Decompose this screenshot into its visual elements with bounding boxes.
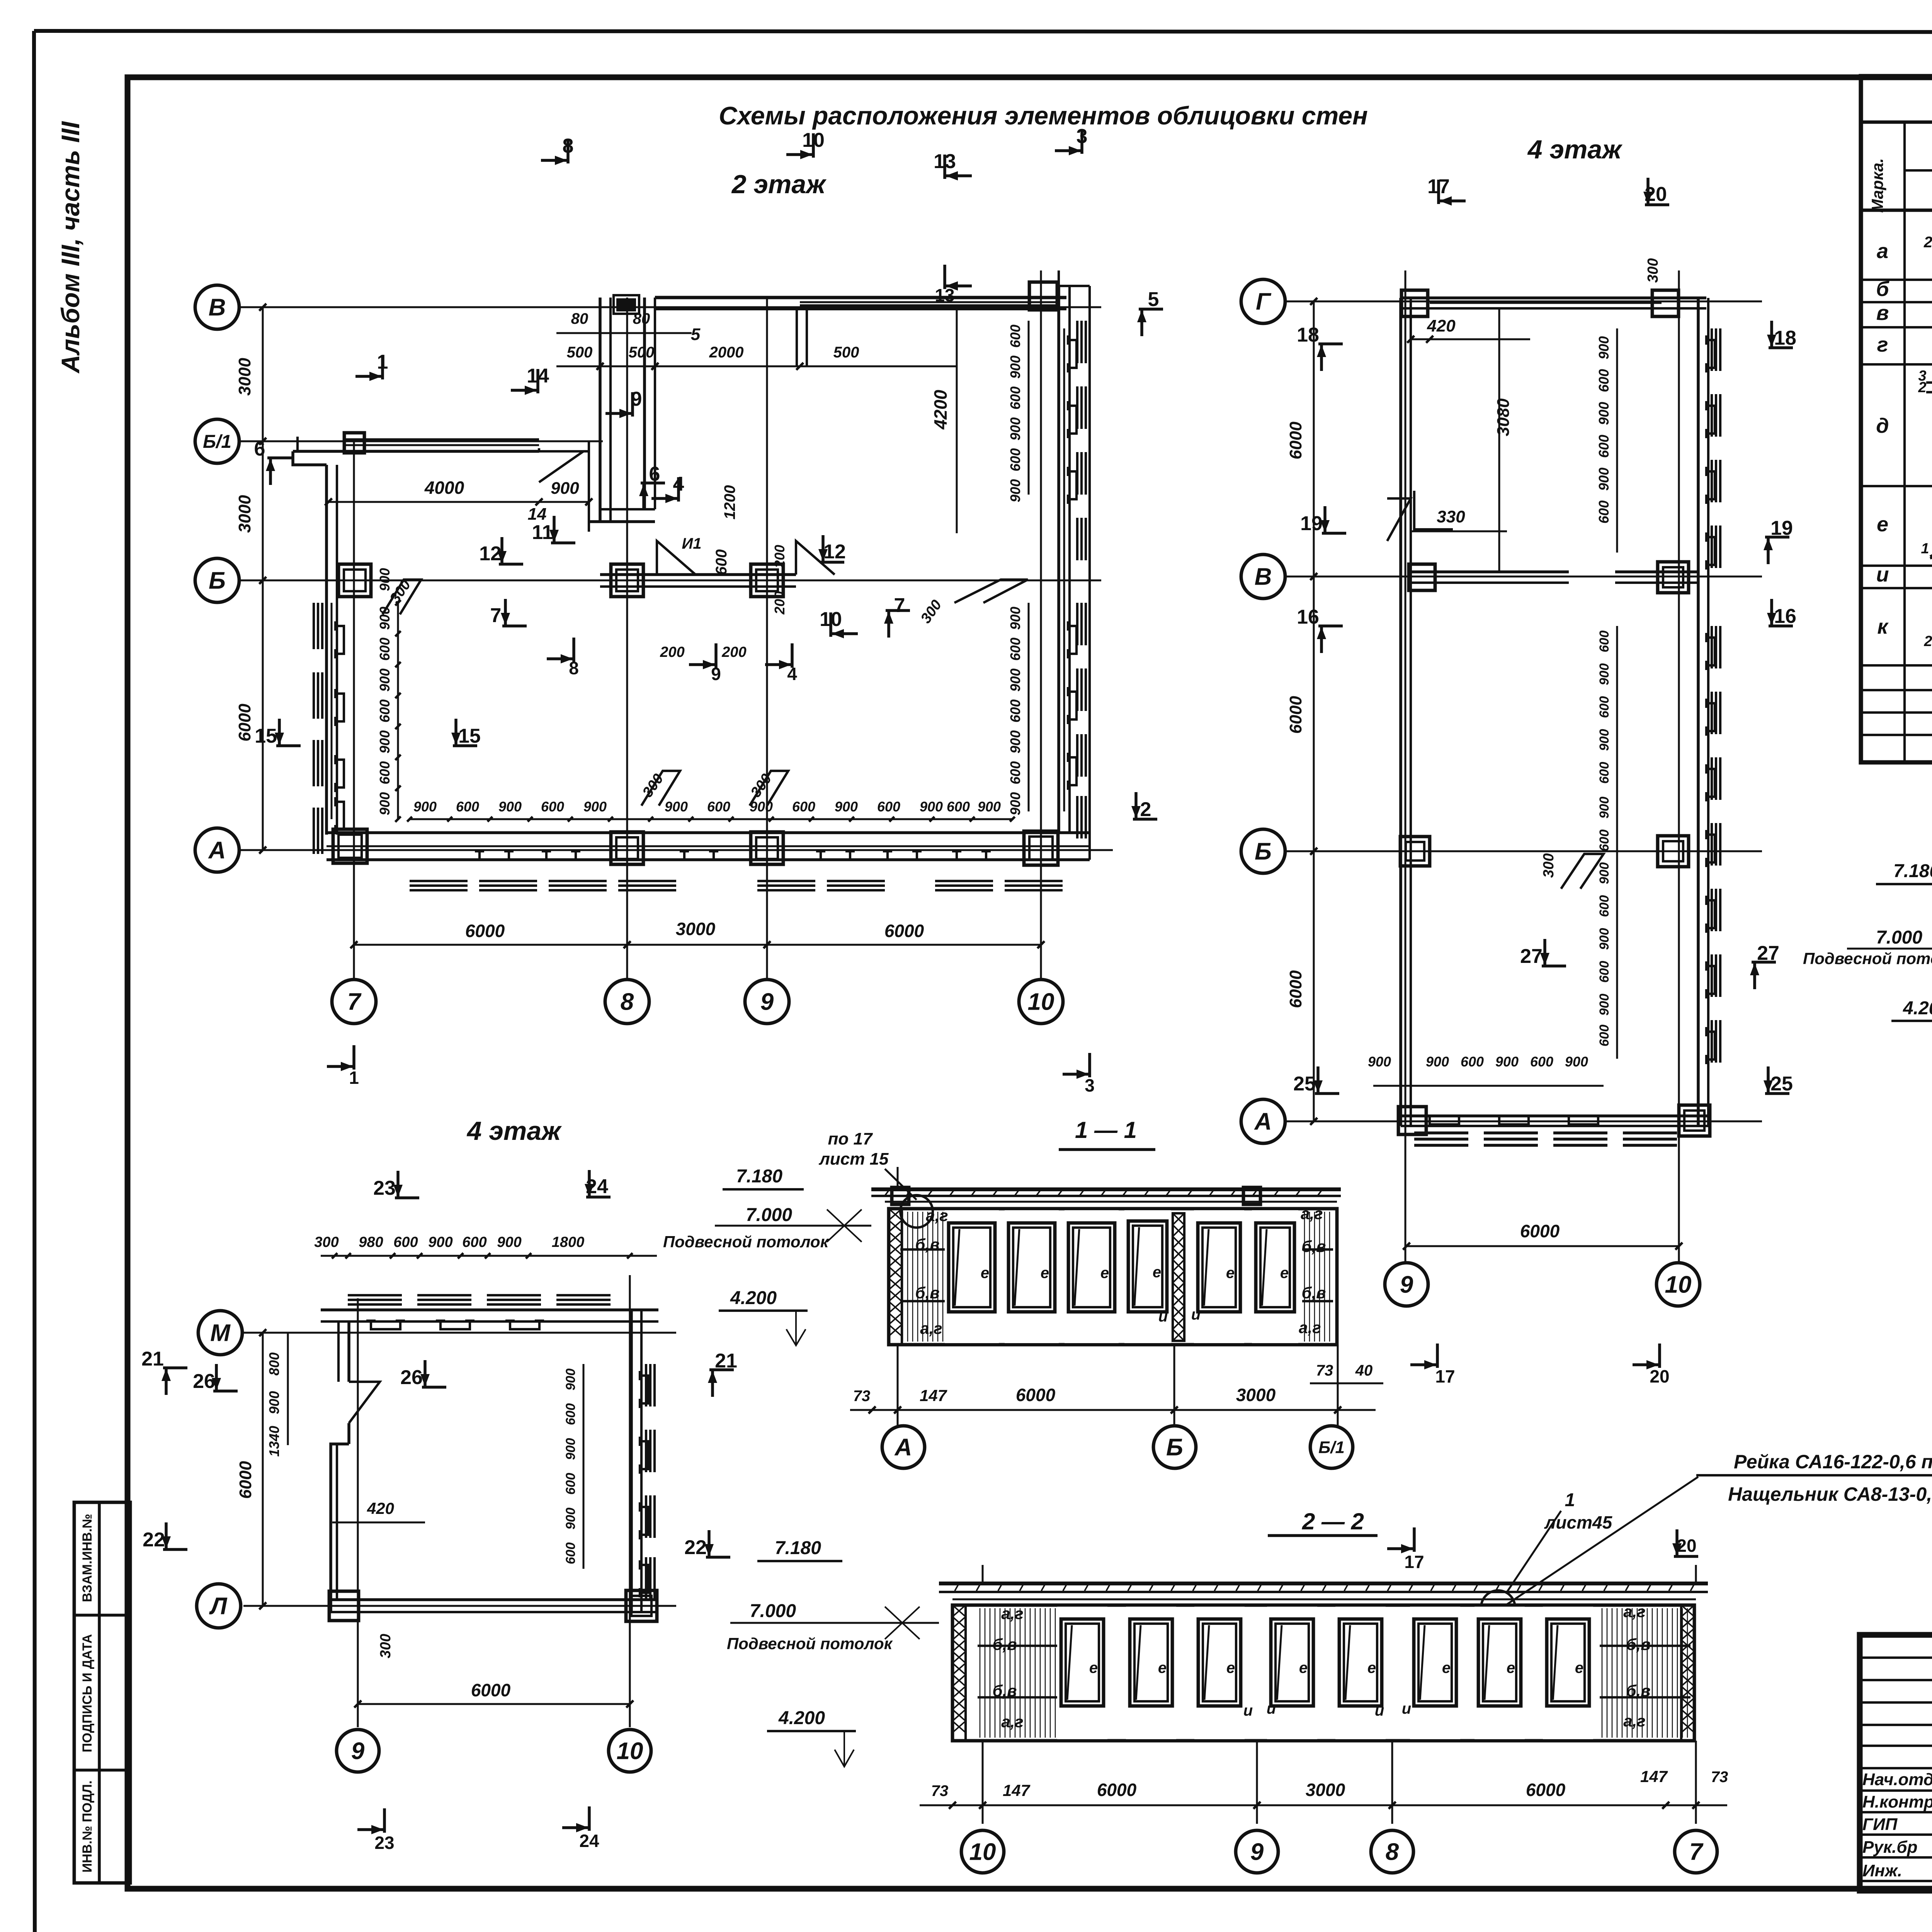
plan2 left top jog (293, 437, 343, 465)
svg-text:420: 420 (367, 1499, 394, 1517)
axis circle Б (plan2) (195, 558, 239, 602)
svg-text:900: 900 (413, 799, 437, 815)
svg-text:к: к (1877, 615, 1889, 638)
plan2 bottom windows and sills (410, 851, 1063, 890)
svg-text:200: 200 (721, 644, 746, 660)
svg-text:Б: Б (209, 568, 226, 594)
plan2 left wall windows (314, 603, 344, 854)
svg-text:147: 147 (1003, 1781, 1031, 1799)
svg-text:6: 6 (254, 438, 265, 460)
svg-text:600: 600 (947, 799, 970, 815)
svg-text:900: 900 (563, 1438, 578, 1460)
svg-text:1 — 1: 1 — 1 (1075, 1117, 1137, 1143)
plan2 right wall (1059, 286, 1070, 833)
svg-text:и: и (1375, 1702, 1384, 1719)
axis circle 8 (605, 980, 649, 1024)
svg-text:20: 20 (1645, 183, 1667, 206)
svg-text:900: 900 (1007, 792, 1023, 815)
plan2 bottom dimension chain 6000/3000/6000 (350, 919, 1044, 948)
axis circle Б/1 (195, 419, 239, 463)
plan2 column at Б left wall (338, 564, 371, 597)
svg-text:600: 600 (1597, 830, 1612, 852)
svg-text:11: 11 (532, 521, 553, 544)
svg-text:лист 15: лист 15 (818, 1150, 889, 1168)
svg-text:2: 2 (1918, 379, 1926, 396)
callout Рейка СА16-122-0,6п / Нащельник СА8-13-0,6 (1507, 1451, 1932, 1604)
plan2 corner/axis columns bottom (333, 829, 367, 863)
svg-text:3000: 3000 (1306, 1780, 1345, 1800)
svg-text:10: 10 (969, 1839, 996, 1866)
svg-text:600: 600 (877, 799, 900, 815)
svg-text:Б/1: Б/1 (1318, 1438, 1345, 1457)
svg-text:900: 900 (583, 799, 607, 815)
plan4 axis lines (1287, 270, 1762, 1264)
left stamp column boxes (74, 1502, 130, 1883)
svg-text:900: 900 (1597, 729, 1612, 751)
svg-text:300: 300 (1645, 258, 1661, 282)
svg-text:600: 600 (1596, 500, 1612, 524)
svg-text:600: 600 (1007, 761, 1023, 784)
plan2 rotated dims 1200/600/200 (660, 485, 787, 660)
axis circle А (plan2) (195, 828, 239, 872)
section 1-1 end hatch columns (889, 1209, 902, 1345)
plan2 wall on Б with columns (600, 535, 835, 597)
svg-text:900: 900 (1368, 1054, 1391, 1070)
svg-text:и: и (1243, 1702, 1253, 1719)
svg-text:900: 900 (1596, 336, 1612, 359)
svg-text:3080: 3080 (1494, 398, 1513, 436)
svg-text:26: 26 (193, 1370, 215, 1393)
svg-text:2 этаж: 2 этаж (731, 170, 827, 199)
svg-text:е: е (1877, 513, 1888, 536)
plan4s left rotated dims 800/900/1340 (266, 1333, 288, 1457)
svg-text:6000: 6000 (1286, 970, 1305, 1008)
svg-text:600: 600 (1597, 961, 1612, 983)
section 2-2 elevation labels (684, 1530, 939, 1767)
axis circle 9 (plan2) (745, 980, 789, 1024)
svg-text:Альбом III, часть III: Альбом III, часть III (56, 121, 85, 374)
svg-text:600: 600 (462, 1234, 486, 1250)
plan4 bottom wall (1398, 1105, 1710, 1145)
svg-text:3000: 3000 (1236, 1385, 1276, 1405)
axis circle Л (197, 1584, 241, 1628)
svg-text:900: 900 (1565, 1054, 1588, 1070)
svg-text:900: 900 (1007, 417, 1023, 440)
svg-text:500: 500 (629, 344, 655, 361)
svg-text:б,в: б,в (1301, 1237, 1326, 1255)
svg-text:а,г: а,г (920, 1319, 942, 1337)
svg-text:16: 16 (1297, 606, 1319, 628)
section 1-1 label (1059, 1117, 1155, 1150)
svg-text:19: 19 (1770, 517, 1793, 539)
svg-text:900: 900 (1007, 355, 1023, 379)
svg-text:а: а (1877, 240, 1888, 263)
svg-text:900: 900 (377, 568, 393, 591)
plan2 lift shaft walls (589, 295, 655, 532)
svg-text:12: 12 (823, 541, 846, 563)
svg-text:а,г: а,г (1623, 1712, 1645, 1730)
axis circle 9 (plan4s) (337, 1730, 379, 1772)
svg-text:900: 900 (1597, 994, 1612, 1016)
svg-text:4 этаж: 4 этаж (1527, 135, 1623, 164)
svg-text:1: 1 (1565, 1490, 1575, 1510)
svg-text:6000: 6000 (1520, 1221, 1560, 1241)
svg-text:24: 24 (586, 1175, 608, 1198)
plan4 top wall (1401, 290, 1706, 316)
svg-text:600: 600 (1596, 435, 1612, 458)
svg-text:600: 600 (713, 549, 730, 575)
svg-text:Л: Л (209, 1593, 228, 1620)
svg-text:10: 10 (802, 129, 825, 151)
svg-text:Г: Г (1256, 289, 1272, 315)
svg-text:600: 600 (377, 638, 393, 661)
svg-text:600: 600 (541, 799, 564, 815)
svg-text:300: 300 (1541, 853, 1557, 878)
svg-text:300: 300 (378, 1634, 394, 1658)
svg-text:Б: Б (1166, 1434, 1183, 1461)
svg-text:4200: 4200 (930, 389, 951, 430)
svg-text:73: 73 (931, 1782, 949, 1799)
svg-text:2: 2 (1140, 798, 1151, 821)
svg-text:18: 18 (1774, 327, 1796, 349)
section 1-1 inner labels (915, 1204, 1326, 1337)
svg-text:600: 600 (1530, 1054, 1553, 1070)
svg-text:б,в: б,в (992, 1635, 1017, 1653)
plan2 right wall dim string 600/900 (1007, 321, 1029, 815)
svg-text:420: 420 (1427, 316, 1456, 335)
svg-text:2 — 2: 2 — 2 (1302, 1509, 1364, 1534)
plan2 left wall (327, 465, 337, 835)
section 2-2 inner labels (992, 1602, 1650, 1731)
svg-text:е: е (1158, 1660, 1167, 1677)
svg-text:6000: 6000 (1097, 1780, 1137, 1800)
svg-text:900: 900 (428, 1234, 452, 1250)
svg-text:980: 980 (359, 1234, 383, 1250)
svg-text:17: 17 (1435, 1366, 1455, 1386)
svg-text:6000: 6000 (471, 1680, 511, 1700)
axis circle 10 (plan2) (1019, 980, 1063, 1024)
svg-text:е: е (1507, 1660, 1515, 1677)
svg-text:а,г: а,г (1301, 1204, 1323, 1223)
svg-text:900: 900 (498, 799, 522, 815)
svg-text:Рейка СА16-122-0,6 п: Рейка СА16-122-0,6 п (1734, 1451, 1932, 1473)
svg-text:2: 2 (1923, 234, 1932, 251)
svg-text:25: 25 (1770, 1073, 1793, 1095)
svg-text:900: 900 (1597, 928, 1612, 950)
svg-text:18: 18 (1297, 324, 1319, 346)
svg-text:600: 600 (1007, 386, 1023, 410)
svg-text:73: 73 (853, 1388, 871, 1405)
svg-text:и: и (1876, 563, 1889, 586)
plan4 door on left wall (1387, 498, 1411, 541)
plan2 section marks (254, 125, 1163, 1095)
axis circle В (plan4) (1241, 554, 1285, 599)
svg-text:а,г: а,г (1001, 1713, 1023, 1731)
svg-text:13: 13 (935, 285, 954, 305)
plan4 columns at Б (1400, 837, 1430, 866)
section 1-1 elevation labels (663, 1166, 871, 1345)
svg-text:600: 600 (1461, 1054, 1484, 1070)
svg-text:600: 600 (1596, 369, 1612, 392)
svg-text:900: 900 (920, 799, 943, 815)
plan2 left wall dim string 900/600 (377, 568, 401, 822)
svg-text:е: е (1226, 1660, 1235, 1677)
plan4 door swing at 330 (1414, 491, 1453, 529)
svg-text:200: 200 (772, 591, 787, 615)
svg-text:а,г: а,г (1299, 1318, 1321, 1337)
axis circle 9 (sec22) (1236, 1830, 1278, 1873)
svg-text:17: 17 (1404, 1552, 1424, 1572)
svg-text:г: г (1877, 333, 1888, 356)
svg-text:е: е (1367, 1660, 1376, 1677)
svg-text:6000: 6000 (235, 704, 254, 742)
plan4s door swing (349, 1382, 380, 1423)
svg-text:600: 600 (393, 1234, 418, 1250)
svg-text:10: 10 (617, 1738, 643, 1765)
svg-text:7.180: 7.180 (736, 1166, 782, 1187)
svg-text:6000: 6000 (1526, 1780, 1566, 1800)
svg-text:900: 900 (1597, 663, 1612, 685)
svg-text:6000: 6000 (1016, 1385, 1056, 1405)
svg-text:900: 900 (1597, 797, 1612, 819)
svg-text:4.200: 4.200 (1903, 998, 1932, 1019)
svg-text:900: 900 (1007, 607, 1023, 630)
svg-text:24: 24 (579, 1831, 599, 1851)
svg-text:900: 900 (1596, 468, 1612, 491)
svg-text:900: 900 (377, 792, 393, 815)
plan4s top dim string 300/980/600/900/600/900/1800 (314, 1234, 657, 1259)
svg-text:4 этаж: 4 этаж (466, 1116, 562, 1146)
svg-text:500: 500 (567, 344, 593, 361)
svg-text:23: 23 (374, 1833, 394, 1853)
plan4s dim 420 (332, 1499, 425, 1522)
plan2 partition wall below top wall (797, 309, 807, 366)
svg-text:900: 900 (1007, 730, 1023, 753)
svg-text:27: 27 (1520, 945, 1543, 968)
axis circle 8 (sec22) (1371, 1830, 1413, 1873)
svg-text:900: 900 (1495, 1054, 1519, 1070)
svg-text:21: 21 (715, 1350, 737, 1372)
svg-text:900: 900 (563, 1369, 578, 1391)
svg-text:1: 1 (377, 351, 388, 373)
svg-text:20: 20 (1677, 1536, 1696, 1556)
section 1-1 dims (850, 1362, 1383, 1413)
svg-text:3000: 3000 (235, 495, 254, 533)
svg-text:16: 16 (1774, 605, 1796, 628)
axis circle Б/1 (sec11) (1310, 1426, 1353, 1468)
svg-text:1: 1 (349, 1068, 359, 1088)
svg-text:8: 8 (621, 989, 634, 1015)
svg-text:е: е (1442, 1660, 1451, 1677)
plan4s right wall (631, 1310, 655, 1612)
svg-text:10: 10 (1665, 1272, 1692, 1298)
svg-text:Рук.бр: Рук.бр (1862, 1838, 1917, 1857)
svg-text:ВЗАМ.ИНВ.№: ВЗАМ.ИНВ.№ (80, 1514, 95, 1602)
svg-text:200: 200 (660, 644, 684, 660)
svg-text:А: А (1254, 1109, 1272, 1135)
svg-text:25: 25 (1293, 1073, 1316, 1095)
svg-text:В: В (1255, 564, 1272, 590)
svg-text:147: 147 (1640, 1767, 1668, 1786)
svg-text:9: 9 (631, 388, 642, 410)
svg-text:3000: 3000 (676, 919, 716, 939)
svg-text:600: 600 (456, 799, 479, 815)
svg-text:б,в: б,в (915, 1284, 939, 1302)
svg-text:900: 900 (1596, 402, 1612, 425)
svg-text:600: 600 (1007, 448, 1023, 471)
svg-text:900: 900 (551, 479, 579, 498)
plan2 right wall windows (1068, 321, 1086, 838)
svg-text:д: д (1876, 414, 1889, 437)
svg-text:а,г: а,г (1001, 1604, 1023, 1622)
svg-text:15: 15 (458, 725, 481, 747)
section 2-2 band (952, 1605, 1694, 1741)
svg-text:Подвесной потолок: Подвесной потолок (663, 1233, 829, 1251)
svg-text:Схемы расположения элементов: Схемы расположения элементов облицовки с… (719, 101, 1368, 130)
svg-text:4.200: 4.200 (778, 1708, 825, 1728)
plan4 bottom dim 6000 (1403, 1221, 1682, 1250)
svg-text:7.180: 7.180 (1893, 861, 1932, 881)
svg-text:по 17: по 17 (828, 1129, 873, 1148)
plan4 left wall (1387, 298, 1411, 1126)
svg-text:7: 7 (894, 594, 905, 617)
section 2-2 axis drops (983, 1565, 1696, 1824)
svg-text:900: 900 (1426, 1054, 1449, 1070)
plan4s axis lines (243, 1275, 676, 1727)
svg-text:А: А (894, 1434, 912, 1461)
svg-text:9: 9 (351, 1738, 365, 1765)
svg-text:и: и (1158, 1308, 1168, 1325)
svg-text:900: 900 (835, 799, 858, 815)
axis circle 10 (sec22) (961, 1830, 1004, 1873)
svg-text:26: 26 (400, 1366, 423, 1389)
section 2-2 top beam (939, 1583, 1708, 1599)
plan2 bottom wall along А (327, 833, 1090, 860)
section 2-2 label (1268, 1509, 1378, 1536)
svg-text:7.000: 7.000 (1876, 927, 1922, 948)
svg-text:2: 2 (1923, 633, 1932, 650)
svg-text:900: 900 (266, 1391, 282, 1414)
door swing at Б/1 (539, 448, 583, 482)
svg-text:7.000: 7.000 (746, 1205, 792, 1225)
svg-text:Инж.: Инж. (1862, 1861, 1902, 1880)
plan2 wall on Б/1 with glazing (343, 433, 589, 482)
axis circle А (plan4) (1241, 1099, 1285, 1143)
plan4 right wall dim string (1596, 328, 1617, 1059)
svg-text:1800: 1800 (552, 1234, 585, 1250)
svg-text:Нащельник СА8-13-0,6: Нащельник СА8-13-0,6 (1728, 1483, 1932, 1505)
svg-text:И1: И1 (682, 535, 701, 552)
svg-text:7: 7 (1689, 1839, 1704, 1866)
svg-text:и: и (1267, 1700, 1276, 1717)
axis circle В (195, 285, 239, 329)
plan2 rotated dim 4200 (930, 307, 957, 533)
axis circle Г (1241, 279, 1285, 323)
svg-text:73: 73 (1316, 1362, 1333, 1379)
svg-text:6000: 6000 (1286, 696, 1305, 734)
svg-text:В: В (209, 294, 226, 321)
section 1-1 band (889, 1209, 1337, 1345)
svg-text:8: 8 (563, 135, 574, 157)
svg-text:ГИП: ГИП (1862, 1815, 1898, 1834)
plan4s left wall with jog (331, 1321, 380, 1612)
svg-text:4000: 4000 (424, 478, 464, 498)
svg-text:27: 27 (1757, 942, 1779, 964)
svg-text:40: 40 (1355, 1362, 1373, 1379)
svg-text:600: 600 (563, 1543, 578, 1565)
axis circle Б (plan4) (1241, 829, 1285, 873)
axis circle 7 (sec22) (1675, 1830, 1717, 1873)
plan4s bottom dim 6000 (354, 1680, 633, 1708)
svg-text:е: е (1280, 1265, 1289, 1282)
svg-text:600: 600 (1597, 631, 1612, 653)
svg-text:6000: 6000 (465, 921, 505, 941)
svg-text:147: 147 (920, 1386, 947, 1405)
svg-text:80: 80 (571, 310, 588, 327)
svg-text:600: 600 (1007, 638, 1023, 661)
svg-text:7.180: 7.180 (775, 1538, 821, 1558)
svg-text:е: е (1100, 1265, 1109, 1282)
svg-text:600: 600 (377, 699, 393, 723)
svg-text:ИНВ.№ ПОДЛ.: ИНВ.№ ПОДЛ. (80, 1781, 95, 1872)
svg-text:е: е (1575, 1660, 1583, 1677)
door swing И1 (657, 541, 696, 575)
svg-text:Нач.отд: Нач.отд (1862, 1770, 1932, 1789)
svg-text:9: 9 (760, 989, 774, 1015)
section 1-1 axis drops (898, 1167, 1338, 1425)
plan2 dim 4000/900 (325, 478, 592, 524)
svg-text:500: 500 (833, 344, 859, 361)
svg-text:8: 8 (569, 658, 579, 678)
svg-text:22: 22 (684, 1536, 707, 1559)
svg-text:а,г: а,г (926, 1206, 948, 1225)
svg-text:80: 80 (633, 310, 650, 327)
svg-text:13: 13 (934, 150, 956, 173)
svg-text:А: А (208, 837, 226, 864)
svg-text:600: 600 (1597, 762, 1612, 784)
plan2 bottom dim string 900/600 (407, 799, 1015, 821)
plan4s right wall dim string (563, 1364, 583, 1569)
plan4s section marks (141, 1170, 737, 1853)
svg-text:600: 600 (792, 799, 815, 815)
svg-text:6000: 6000 (236, 1461, 255, 1499)
svg-text:300: 300 (314, 1234, 338, 1250)
element table Ведомость элементов (1861, 76, 1932, 762)
svg-text:900: 900 (1007, 479, 1023, 502)
table sketches (Эскиз column) (1918, 234, 1932, 657)
plan4 dim 330 (1411, 491, 1507, 531)
svg-text:и: и (1402, 1700, 1411, 1717)
section 3-3 elevation labels (1803, 861, 1932, 1056)
svg-text:600: 600 (1007, 699, 1023, 723)
axis circle 9 (plan4) (1385, 1263, 1428, 1306)
svg-text:9: 9 (1250, 1839, 1264, 1866)
svg-text:3: 3 (1077, 125, 1088, 148)
section 2-2 dims (920, 1767, 1728, 1809)
svg-text:7: 7 (347, 989, 362, 1015)
svg-text:600: 600 (707, 799, 730, 815)
svg-text:ПОДПИСЬ И ДАТА: ПОДПИСЬ И ДАТА (80, 1634, 95, 1752)
svg-text:Б: Б (1255, 838, 1272, 865)
svg-text:10: 10 (820, 608, 842, 631)
svg-text:1340: 1340 (266, 1426, 282, 1457)
svg-text:22: 22 (143, 1529, 165, 1551)
svg-text:Подвесной потолок: Подвесной потолок (1803, 949, 1932, 968)
svg-text:е: е (1299, 1660, 1308, 1677)
svg-text:Марка.: Марка. (1868, 158, 1886, 213)
plan4s top wall (321, 1295, 658, 1329)
svg-text:900: 900 (1597, 862, 1612, 884)
